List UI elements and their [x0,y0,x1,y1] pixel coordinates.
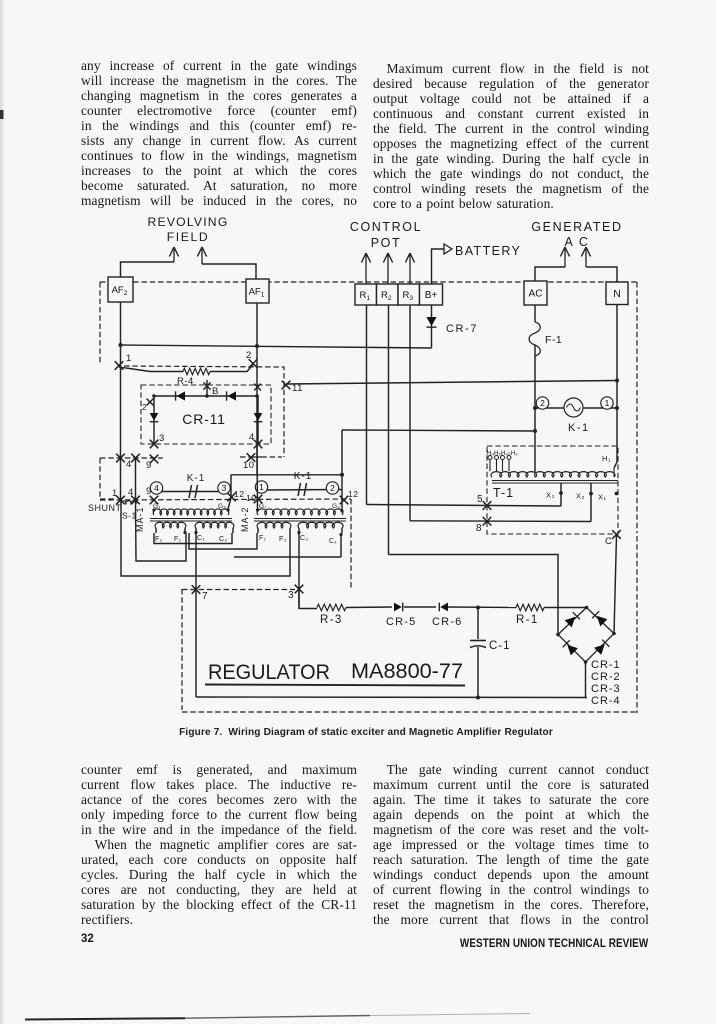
MA-1 F winding [155,522,186,528]
terminal 2 [249,359,258,368]
wire contact row to cross [231,474,342,476]
MA-2 C winding [298,522,343,528]
terminal box R1 [355,284,377,305]
rectifier CR-11 top-left diode [177,391,185,400]
capacitor C-1 [477,608,479,640]
terminal 5 [483,501,492,510]
node N junction coil [615,406,619,410]
node C-1 bottom junction [476,696,480,700]
node CR-11 top-left corner [152,394,156,398]
dashed terminal row lower [100,499,351,500]
node G1 MA-1 [152,508,155,511]
terminal box R2 [377,284,399,305]
wire N box to generated ac yoke [586,267,617,282]
terminal 10 mid [254,495,263,504]
node CR-11 top-right corner [255,394,259,398]
node C1 MA-2 [339,533,342,536]
regulator title underline [205,685,465,686]
wire AF2 down [120,302,122,500]
terminal 11 [282,381,291,390]
terminal 9 row1 [150,455,159,464]
terminal X1 dot [615,492,619,496]
terminal box B+ [420,284,443,305]
terminal X2 dot [589,492,593,496]
wire terminal 3 to R-3 [298,589,300,609]
relay coil terminal circled 2 [536,397,548,409]
wire AF1 leg lower [256,444,259,509]
wire R3 to terminal 8 [410,520,591,523]
terminal X3 dot [559,491,563,495]
node N junction upper [615,379,619,383]
contact terminal circled 4 [150,482,162,494]
terminal box N [606,282,628,305]
wire terminal 12 riser [228,475,231,509]
node AF2 junction [119,343,123,347]
terminal 8 [483,517,492,526]
wire bridge right to terminal C [614,535,617,634]
contact terminal circled 2 [326,482,338,494]
node F1 MA-1 [183,531,186,534]
T-1 core [492,480,618,482]
terminal 4 [254,440,263,449]
node bridge bottom [584,660,588,664]
wire CR-6 to R-1 [448,606,516,609]
terminal C [612,530,621,539]
MA-2 C winding leads [298,528,300,533]
node G2 MA-1 [226,508,229,511]
relay contact K-1 left symbol [189,485,192,498]
terminal 7 [192,585,201,594]
rectifier CR-7 [426,317,436,326]
revolving field arrow left [173,249,175,262]
wire C2MA1 to F2MA2 [234,556,341,558]
dashed regulator top edge [182,589,295,591]
relay contact K-1 right bar [262,489,342,492]
node G1 MA-2 [256,508,259,511]
terminal 12 right [340,496,349,505]
wire terminal 11 to N [286,381,617,385]
dashed MA-2 box right edge [350,499,352,589]
wire C2 MA-2 down to terminal 3 [298,533,300,609]
wire B+ down through CR-7 [431,305,433,348]
wire AF2 to revolving field yoke [121,262,175,277]
wire cross to AC [342,430,535,431]
T-1 primary taps [489,459,491,471]
wire AC cross down [341,430,343,511]
node C1 MA-1 [194,531,197,534]
node AC at K-1 coil [533,406,537,410]
node bridge left [556,633,560,637]
dashed boundary bottom [182,711,637,713]
wire R1 down [366,305,368,505]
dashed boundary right [636,282,638,533]
MA-1 F winding leads [155,528,157,533]
top-left column text [81,58,357,208]
terminal 4 row2 [131,496,140,505]
figure caption [0,727,716,738]
wire R2 down [388,305,390,555]
wire C1 MA-1 down to terminal 7 [195,533,197,697]
generated ac arrow right [585,249,587,267]
wire F1MA1 to F1MA2 [189,533,257,549]
wire shunt outer loop [121,500,290,576]
terminal box AF1 [246,279,269,303]
terminal 2 on CR-11 left [147,399,154,406]
relay coil terminal circled 1 [601,397,613,409]
transformer T-1 dashed box [487,446,618,534]
dashed wire terminal 1 to 11 [124,366,284,457]
terminal box R3 [398,284,420,305]
left page edge shading [0,0,4,1024]
terminal 9 row2 [150,496,159,505]
terminal 12 mid [227,493,236,502]
generated ac arrow left [564,249,566,267]
rectifier CR-4 bridge bottom-right [594,640,609,655]
MA-2 F winding [257,522,291,528]
bridge rectifier frame [558,608,614,663]
T-1 primary winding [491,472,615,477]
wire R2 to bridge [389,555,559,636]
MA-2 core [254,518,346,520]
node C2 MA-2 [297,531,300,534]
top-right column text [373,61,649,211]
bottom-right column text [373,762,649,927]
MA-1 C winding [195,522,234,528]
relay contact K-1 right symbol [298,483,301,496]
rectifier CR-11 left diode [150,413,159,421]
node AC at cross wire [533,429,537,433]
revolving field arrow right [201,249,203,264]
battery arrow from B+ [432,249,445,284]
node B stub [206,380,208,396]
node AF1 junction [255,344,259,348]
terminal 10 [247,453,256,462]
journal footer [460,936,648,950]
wire R3 down [409,305,411,521]
wire CR-11 right leg [257,396,259,444]
wire field supply horizontal [121,345,432,348]
terminal 1 row2 [116,496,125,505]
MA-2 F winding leads [257,528,259,533]
rectifier CR-11 top-right diode [228,391,236,400]
terminal 1 [115,361,124,370]
terminal box AF2 [108,277,133,302]
wire AC box to generated ac yoke [535,267,565,281]
T-1 secondary tap X3 [560,483,562,506]
shunt winding S-1 [121,501,137,504]
wire F2MA1 to C2MA1 [154,533,232,544]
wire N down [616,305,618,463]
dashed regulator box left [181,589,183,710]
resistor R-4 [119,367,183,372]
terminal B [203,382,210,389]
control pot arrow R3 [409,255,411,284]
fuse F-1 [529,322,540,356]
rectifier CR-6 [440,603,448,612]
dashed boundary top [100,281,637,283]
terminal box AC [524,281,547,305]
MA-1 C winding leads [195,528,197,533]
rectifier CR-11 right diode [254,413,263,421]
wire bridge bottom leg [585,662,587,698]
node G2 MA-2 [340,509,343,512]
node C-1 top junction [476,606,480,610]
terminal mark row1 left [116,454,125,463]
wire C1MA2 down [340,535,342,558]
node bridge top [585,606,589,610]
page number [81,933,94,945]
wire bottom bus [196,696,587,699]
terminal 3 [150,440,159,449]
terminal 4 row1 [131,454,140,463]
wire CR-11 top bus [154,395,258,397]
dashed shunt box [99,458,101,499]
dashed boundary left upper [99,282,101,364]
wire N to H1 [614,462,617,468]
contact terminal circled 1 [255,481,267,493]
relay coil K-1 [564,398,583,417]
resistor R-1 [516,604,544,610]
wire terminal 4 riser [135,458,137,500]
rectifier CR-3 bridge bottom-left [563,640,578,655]
rectifier CR-2 bridge top-right [592,611,607,626]
wire terminal4 loop [136,500,187,561]
MA-1 gate winding [153,509,229,515]
wire K-1 coil bar [535,407,617,409]
wire CR-11 left leg [153,396,155,444]
rectifier block CR-11 dashed box [141,385,271,444]
MA-1 core [150,518,232,520]
wire AF1 down [256,303,258,476]
node bridge right [612,632,616,636]
control pot arrow R1 [365,255,367,284]
wire AF1 to revolving field yoke [202,264,256,279]
node cross junction [340,473,344,477]
contact terminal circled 3 [218,482,230,494]
rectifier CR-5 [394,603,402,612]
wire CR-5 to CR-6 [404,606,436,608]
relay contact K-1 left bar [154,491,229,493]
rectifier CR-1 bridge top-left [565,612,580,627]
bottom-left column text [81,762,357,927]
wire AC down [534,305,536,322]
dashed terminal row upper [100,457,163,459]
control pot arrow R2 [387,255,389,284]
wire R-1 to bridge top [544,607,587,609]
resistor R-3 [299,608,317,610]
MA-2 gate winding [257,509,343,515]
wire R1 to terminal 5 [367,505,562,507]
terminal 3 lower [295,585,304,594]
T-1 secondary tap X2 [590,483,592,522]
